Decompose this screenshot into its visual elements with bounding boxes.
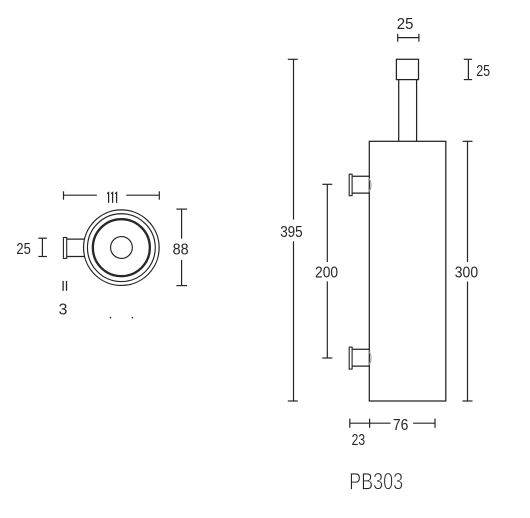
svg-text:200: 200 (315, 264, 338, 281)
svg-text:25: 25 (397, 16, 414, 33)
svg-text:76: 76 (393, 417, 409, 434)
svg-text:25: 25 (476, 63, 490, 80)
svg-text:23: 23 (352, 432, 366, 449)
svg-text:3: 3 (59, 301, 68, 318)
svg-text:PB303: PB303 (349, 469, 403, 496)
svg-text:88: 88 (173, 242, 189, 259)
svg-text:25: 25 (16, 241, 31, 258)
svg-text:395: 395 (280, 224, 303, 241)
svg-text:300: 300 (455, 265, 479, 282)
